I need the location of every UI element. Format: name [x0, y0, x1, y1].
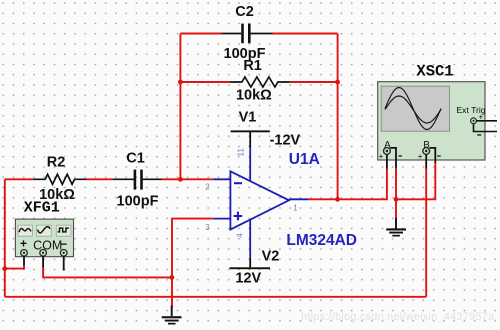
- svg-text:XFG1: XFG1: [24, 200, 60, 217]
- scope B- pin stub: [430, 148, 436, 163]
- svg-text:htlps://blog.csdn.nel/weixin_4: htlps://blog.csdn.nel/weixin_4437957a: [301, 311, 495, 323]
- scope terminal B: [423, 148, 430, 155]
- wire: C2 top branch left: [180, 33, 221, 35]
- wire: feedback right vertical: [337, 34, 339, 200]
- XFG1 terminal -: [60, 250, 67, 257]
- junction dot output / feedback-right: [335, 197, 340, 202]
- wire: A- to B- horizontal: [396, 163, 435, 199]
- svg-text:+: +: [379, 152, 384, 161]
- wire: feedback left vertical: [179, 34, 181, 180]
- wire: XFG1 plus to input node: [5, 266, 24, 269]
- junction dot A- net: [394, 197, 399, 202]
- wire: XFG1 COM to op-amp plus net: [43, 268, 172, 278]
- XFG1 pin stub COM: [42, 256, 44, 268]
- svg-text:-12V: -12V: [270, 133, 301, 149]
- resistor R2: [33, 174, 86, 184]
- Ext Trig terminal: [471, 118, 477, 124]
- wire: C2 top branch right: [273, 33, 338, 35]
- junction dot feedback-left / input row: [178, 177, 183, 182]
- wire: input node vertical (left): [4, 179, 6, 296]
- svg-text:R1: R1: [243, 58, 262, 74]
- Ext Trig lead top: [476, 120, 497, 122]
- XFG1 pin stub +: [23, 256, 25, 266]
- scope A+ pin stub: [386, 154, 388, 168]
- svg-text:100pF: 100pF: [117, 193, 159, 209]
- XFG1 pin stub - (unconnected): [63, 256, 65, 271]
- svg-text:LM324AD: LM324AD: [286, 232, 357, 249]
- wire: input row to R2: [5, 178, 33, 180]
- wire: R2 to C1: [87, 178, 113, 180]
- Ext Trig lead bottom: [474, 124, 498, 132]
- wire: R1 branch left: [180, 81, 230, 83]
- svg-text:4: 4: [236, 233, 245, 238]
- scope trace B (small sine): [385, 96, 441, 123]
- ground (center, op-amp plus net): [162, 306, 182, 325]
- svg-text:1: 1: [293, 204, 298, 213]
- capacitor C2: [221, 24, 272, 44]
- scope terminal A: [384, 148, 391, 155]
- scope trace A (large sine): [385, 88, 441, 130]
- power source V1 (-12V rail): [231, 130, 270, 181]
- wire: scope B+ vertical: [425, 169, 427, 297]
- resistor R1: [230, 77, 290, 87]
- svg-text:C1: C1: [126, 150, 145, 166]
- junction dot feedback-right / R1: [335, 80, 340, 85]
- svg-text:U1A: U1A: [289, 151, 320, 168]
- svg-text:11: 11: [236, 148, 245, 157]
- oscilloscope XSC1 box: [378, 82, 485, 160]
- svg-text:2: 2: [205, 183, 210, 192]
- svg-text:10kΩ: 10kΩ: [236, 88, 272, 104]
- wire: R1 branch right: [290, 81, 338, 83]
- svg-text:12V: 12V: [235, 270, 261, 286]
- svg-text:V1: V1: [239, 110, 257, 126]
- junction dot input node / XFG1 plus: [2, 266, 7, 271]
- op-amp U1A: [213, 171, 308, 229]
- svg-text:3: 3: [205, 223, 210, 232]
- svg-text:+: +: [20, 237, 27, 251]
- Ext Trig minus mark: [477, 134, 481, 135]
- scope A minus mark: [398, 155, 402, 156]
- scope B minus mark: [437, 155, 441, 156]
- wire: bottom long run to scope B+: [5, 296, 426, 298]
- scope B+ pin stub: [425, 154, 427, 168]
- scope A- pin stub: [390, 148, 396, 169]
- wire: C1 to op-amp pin 2: [162, 178, 214, 180]
- wire: op-amp pin 3 horizontal: [172, 219, 213, 308]
- svg-text:XSC1: XSC1: [416, 63, 453, 81]
- wire: op-amp output to scope A+: [308, 169, 387, 200]
- svg-text:+: +: [418, 152, 423, 161]
- svg-text:C2: C2: [235, 4, 254, 20]
- power source V2 (12V rail): [230, 220, 271, 270]
- svg-text:R2: R2: [47, 155, 66, 171]
- svg-text:V2: V2: [262, 249, 280, 265]
- XFG1 terminal +: [21, 250, 28, 257]
- svg-text:COM: COM: [33, 239, 62, 253]
- function generator XFG1 box: [15, 219, 73, 257]
- junction dot feedback-left / R1: [178, 80, 183, 85]
- wire: scope A- / B- ground net: [395, 169, 397, 219]
- junction dot COM / op-amp plus: [169, 275, 174, 280]
- ground (scope A-/B- net): [386, 218, 406, 237]
- XFG1 terminal COM: [40, 250, 47, 257]
- capacitor C1: [113, 170, 162, 190]
